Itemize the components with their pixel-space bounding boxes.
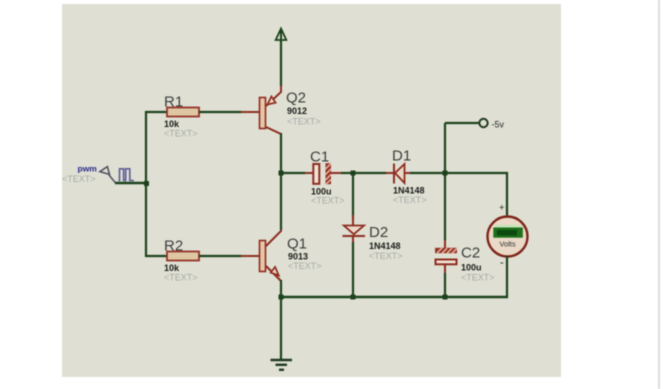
transistor Q2 (PNP 9012) [241, 86, 281, 134]
node: pwm/rail junction [144, 181, 149, 186]
wire: R1 to Q2 base [199, 111, 241, 113]
wire: voltmeter bottom to rail [506, 256, 508, 298]
svg-text:<TEXT>: <TEXT> [461, 273, 495, 283]
resistor R2 [167, 252, 199, 261]
wire: D1 to -5v node [410, 172, 445, 174]
node: D1/-5v/C2/meter junction [443, 171, 448, 176]
svg-text:<TEXT>: <TEXT> [393, 195, 427, 205]
wire: D2 from node down [352, 173, 354, 219]
svg-text:+: + [499, 203, 505, 214]
wire: C1 to D2/D1 node [341, 172, 353, 174]
schematic sheet background [62, 4, 561, 377]
svg-text:100u: 100u [461, 263, 482, 273]
svg-text:R2: R2 [164, 238, 183, 255]
diode D2 (1N4148) [343, 215, 366, 243]
svg-text:1N4148: 1N4148 [369, 241, 401, 251]
svg-text:R1: R1 [164, 94, 183, 111]
svg-text:10k: 10k [164, 119, 180, 129]
svg-text:Volts: Volts [499, 240, 516, 249]
svg-text:<TEXT>: <TEXT> [164, 273, 198, 283]
resistor R1 [167, 108, 199, 117]
wire: R2 row left (rail to R2) [145, 255, 168, 257]
svg-text:D1: D1 [392, 148, 411, 165]
wire: R1 row left (rail to R1) [145, 111, 168, 113]
svg-text:10k: 10k [164, 263, 180, 273]
diode D1 (1N4148) [386, 164, 410, 184]
svg-text:<TEXT>: <TEXT> [62, 174, 96, 184]
wire: node to voltmeter top [445, 173, 507, 217]
wire: Q2 collector down to node [280, 133, 282, 174]
wire: power arrow to Q2 emitter [280, 40, 282, 86]
wire: bottom rail [281, 296, 508, 298]
svg-text:9012: 9012 [287, 106, 307, 116]
wire: C2 down to bottom rail [444, 273, 446, 298]
wire: -5v down to node [444, 123, 446, 174]
capacitor C2 (100u polarized) [435, 240, 457, 273]
node: C1/D1/D2 junction [351, 171, 356, 176]
svg-text:Q2: Q2 [286, 90, 306, 107]
wire: node down to Q1 collector [280, 173, 282, 230]
svg-text:pwm: pwm [78, 164, 98, 174]
generator pwm (pulse source) [100, 167, 134, 183]
svg-text:9013: 9013 [288, 252, 308, 262]
svg-text:<TEXT>: <TEXT> [369, 251, 403, 261]
wire: D2 down to bottom rail [352, 242, 354, 298]
voltmeter (Volts) [488, 217, 528, 257]
wire: rail down to ground [280, 297, 282, 360]
wire: Q1 emitter down to rail [280, 280, 282, 298]
transistor Q1 (NPN 9013) [241, 229, 281, 281]
wire: node to C1 [281, 172, 305, 174]
svg-text:Q1: Q1 [287, 236, 307, 253]
capacitor C1 (100u polarized) [305, 163, 341, 184]
wire: R2 to Q1 base [199, 255, 241, 257]
svg-text:-: - [500, 257, 504, 269]
page edge line [658, 0, 660, 389]
wire: pwm to rail [115, 182, 147, 184]
svg-text:D2: D2 [369, 224, 388, 241]
terminal -5v [445, 119, 488, 127]
node: rail/D2 [351, 295, 356, 300]
wire: node down to C2 [444, 173, 446, 240]
wire: node to D1 [353, 172, 386, 174]
power arrow (VCC up arrow) [276, 29, 287, 41]
svg-text:<TEXT>: <TEXT> [164, 129, 198, 139]
wire: left rail vertical [145, 111, 147, 257]
svg-text:-5v: -5v [492, 120, 505, 130]
ground [271, 360, 293, 370]
svg-text:<TEXT>: <TEXT> [311, 196, 345, 206]
node: rail/C2 [443, 295, 448, 300]
svg-text:1N4148: 1N4148 [393, 186, 425, 196]
node: rail/Q1 emitter/ground [279, 295, 284, 300]
svg-text:C1: C1 [310, 149, 329, 166]
svg-text:<TEXT>: <TEXT> [288, 261, 322, 271]
node: Q2/Q1/C1 junction [279, 171, 284, 176]
svg-text:<TEXT>: <TEXT> [287, 117, 321, 127]
svg-text:C2: C2 [461, 245, 480, 262]
